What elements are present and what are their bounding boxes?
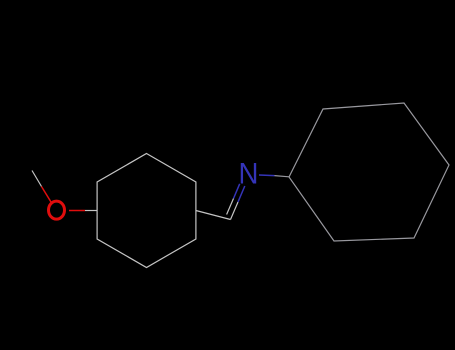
- C=N double bond main line blue half: [238, 186, 245, 202]
- C=N double bond second line white half: [227, 199, 234, 215]
- wire methyl-O bond red half (O side): [42, 187, 52, 203]
- wire ring-CH bond: [196, 211, 231, 220]
- wire O-ring bond white half: [85, 210, 97, 212]
- wire methyl-O bond white half (CH3 side): [32, 171, 42, 187]
- left benzene ring (portrait hexagon): [97, 154, 196, 268]
- atom O (methoxy oxygen, drawn as ring glyph): [49, 201, 65, 219]
- svg-text:N: N: [239, 157, 259, 190]
- C=N double bond main line white half: [231, 202, 239, 220]
- C=N double bond second line blue half: [234, 184, 240, 199]
- right hexagonal ring (slightly rotated): [289, 103, 449, 241]
- wire O-ring bond red half: [69, 210, 85, 212]
- wire N-ring2 bond white half: [275, 176, 290, 177]
- wire N-ring2 bond blue half: [259, 174, 275, 177]
